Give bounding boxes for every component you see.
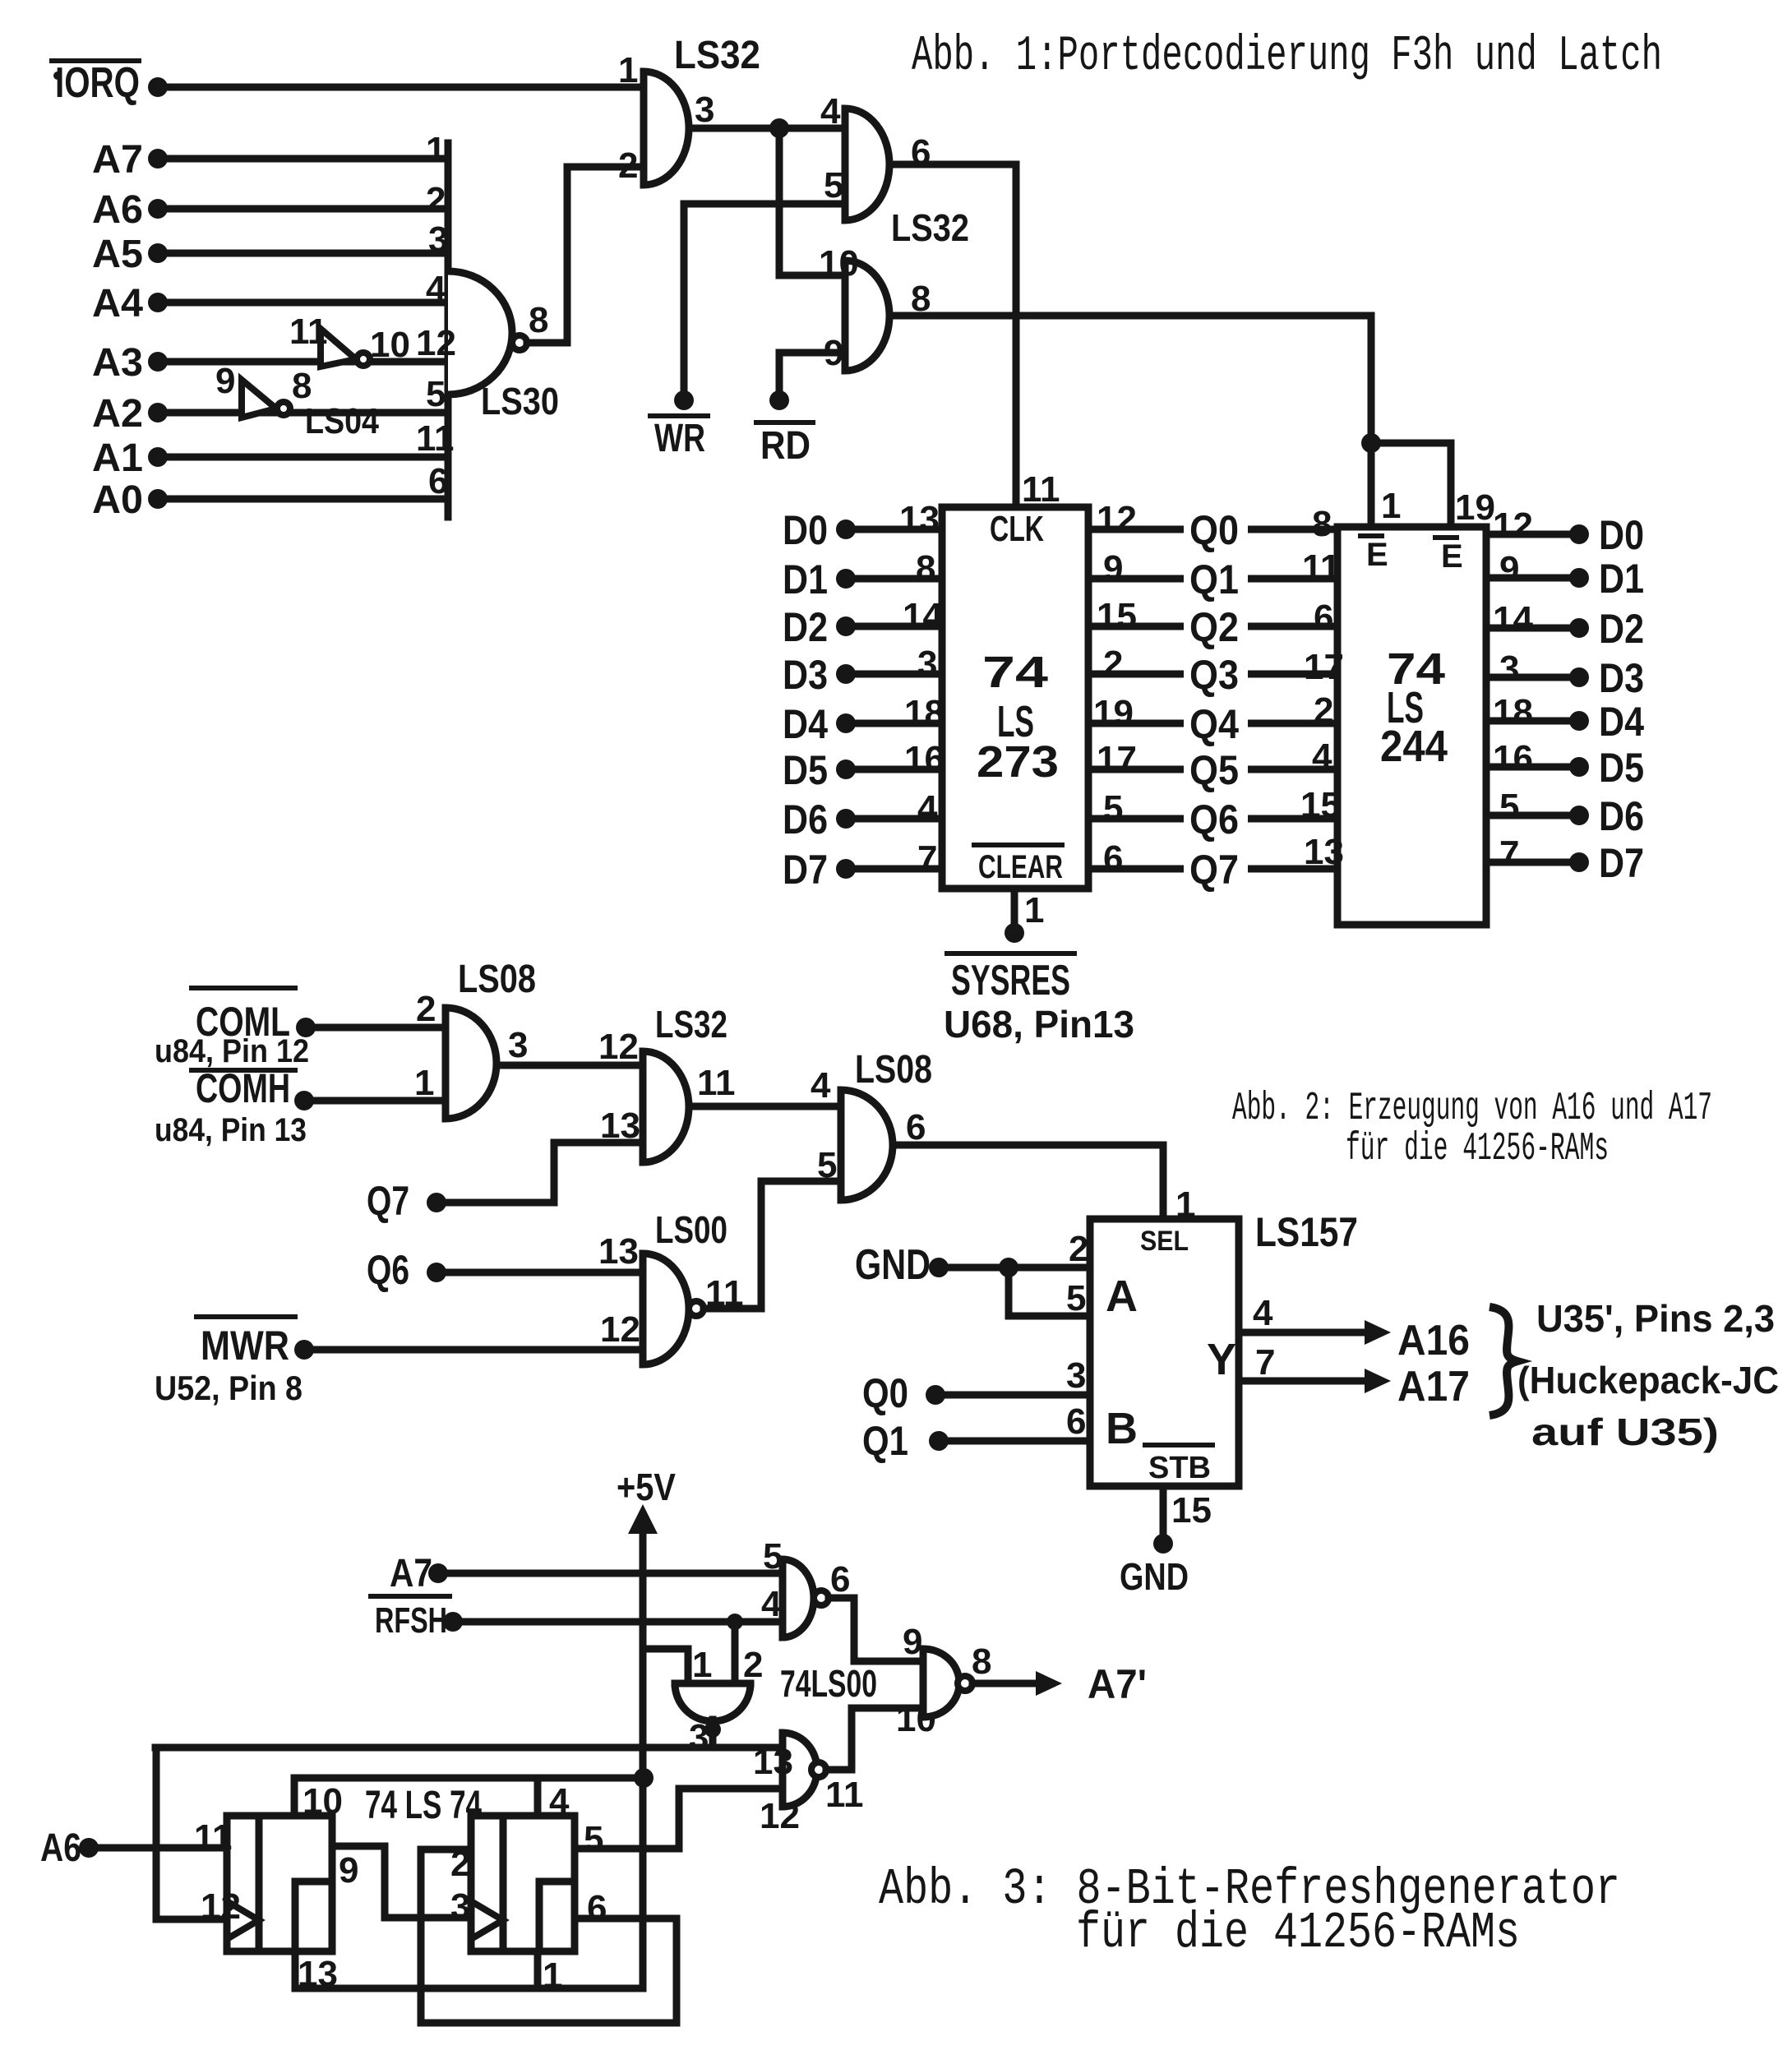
svg-text:CLEAR: CLEAR: [978, 849, 1063, 885]
svg-text:19: 19: [1093, 693, 1134, 733]
svg-text:273: 273: [977, 737, 1059, 787]
svg-text:15: 15: [1097, 596, 1137, 636]
svg-text:D0: D0: [1599, 512, 1644, 558]
svg-text:4: 4: [917, 788, 938, 829]
svg-text:19: 19: [1455, 487, 1495, 528]
svg-text:12: 12: [1097, 499, 1137, 539]
svg-text:Q0: Q0: [862, 1370, 908, 1416]
svg-text:11: 11: [416, 418, 455, 459]
svg-text:A6: A6: [92, 188, 143, 232]
svg-text:LS00: LS00: [655, 1208, 727, 1251]
svg-text:7: 7: [1255, 1342, 1275, 1383]
svg-text:B: B: [1106, 1404, 1138, 1453]
svg-text:MWR: MWR: [201, 1323, 289, 1369]
svg-text:LS08: LS08: [458, 958, 536, 1001]
svg-text:u84, Pin 12: u84, Pin 12: [155, 1033, 309, 1069]
svg-text:3: 3: [695, 90, 714, 130]
svg-text:5: 5: [1066, 1278, 1086, 1318]
svg-text:Q0: Q0: [1189, 507, 1239, 553]
svg-text:Q6: Q6: [367, 1247, 409, 1293]
svg-text:LS08: LS08: [855, 1048, 932, 1092]
svg-text:244: 244: [1380, 722, 1448, 771]
svg-text:5: 5: [1499, 787, 1519, 827]
svg-text:A7': A7': [1088, 1661, 1147, 1707]
svg-text:D1: D1: [1599, 556, 1644, 602]
svg-text:1: 1: [1381, 486, 1401, 526]
svg-text:4: 4: [426, 269, 446, 309]
svg-text:11: 11: [825, 1775, 864, 1815]
svg-text:RFSH: RFSH: [375, 1600, 447, 1641]
svg-text:für die 41256-RAMs: für die 41256-RAMs: [1076, 1904, 1520, 1962]
svg-text:18: 18: [1493, 692, 1533, 732]
svg-text:6: 6: [1314, 598, 1333, 638]
svg-text:D7: D7: [783, 847, 828, 893]
svg-text:2: 2: [1103, 644, 1123, 684]
svg-text:3: 3: [917, 644, 937, 684]
svg-text:Q2: Q2: [1189, 604, 1239, 650]
svg-text:GND: GND: [1120, 1555, 1189, 1598]
svg-text:14: 14: [1493, 599, 1533, 639]
svg-text:A2: A2: [92, 392, 143, 436]
svg-text:6: 6: [830, 1559, 850, 1600]
svg-text:74 LS 74: 74 LS 74: [365, 1784, 482, 1827]
svg-text:E: E: [1441, 538, 1463, 575]
svg-text:WR: WR: [654, 417, 705, 460]
svg-text:12: 12: [760, 1796, 800, 1836]
svg-text:GND: GND: [855, 1241, 931, 1289]
svg-text:SEL: SEL: [1140, 1226, 1189, 1257]
svg-text:LS30: LS30: [481, 380, 559, 422]
svg-text:RD: RD: [760, 424, 811, 468]
svg-text:6: 6: [1103, 838, 1123, 879]
svg-text:D4: D4: [783, 701, 828, 747]
svg-text:2: 2: [743, 1645, 763, 1685]
svg-text:5: 5: [584, 1819, 603, 1859]
svg-text:LS32: LS32: [655, 1003, 727, 1046]
svg-text:11: 11: [289, 312, 328, 352]
svg-text:A1: A1: [92, 436, 143, 480]
svg-text:5: 5: [426, 374, 446, 414]
svg-text:11: 11: [194, 1817, 233, 1858]
svg-text:15: 15: [1171, 1490, 1212, 1531]
svg-text:2: 2: [1314, 690, 1333, 731]
svg-text:6: 6: [1066, 1401, 1086, 1442]
svg-text:16: 16: [904, 739, 944, 779]
svg-text:D6: D6: [1599, 793, 1644, 839]
svg-text:1: 1: [414, 1063, 434, 1103]
svg-text:CLK: CLK: [990, 509, 1044, 549]
svg-text:LS32: LS32: [674, 34, 760, 77]
svg-text:3: 3: [450, 1886, 470, 1927]
svg-text:A0: A0: [92, 478, 143, 522]
svg-text:3: 3: [1499, 649, 1519, 689]
svg-text:D7: D7: [1599, 840, 1644, 886]
svg-text:A6: A6: [40, 1826, 81, 1870]
svg-text:U35', Pins 2,3: U35', Pins 2,3: [1536, 1297, 1775, 1340]
svg-text:74: 74: [982, 648, 1048, 697]
svg-text:11: 11: [697, 1063, 736, 1103]
svg-text:A7: A7: [92, 138, 143, 182]
svg-text:STB: STB: [1148, 1451, 1211, 1485]
svg-text:1: 1: [1024, 890, 1044, 930]
svg-text:E: E: [1366, 537, 1388, 573]
svg-text:9: 9: [1499, 549, 1519, 589]
svg-text:4: 4: [761, 1584, 782, 1624]
svg-text:4: 4: [1312, 736, 1332, 777]
svg-text:D6: D6: [783, 796, 828, 843]
svg-text:8: 8: [1312, 504, 1332, 544]
svg-text:A5: A5: [92, 233, 143, 276]
svg-text:2: 2: [618, 145, 638, 186]
svg-text:18: 18: [904, 693, 944, 733]
svg-text:Q1: Q1: [1189, 556, 1239, 603]
svg-text:LS32: LS32: [891, 206, 969, 249]
svg-text:3: 3: [428, 219, 448, 260]
svg-text:A7: A7: [390, 1552, 432, 1595]
svg-text:D2: D2: [1599, 606, 1644, 652]
svg-text:D1: D1: [783, 556, 828, 603]
svg-text:3: 3: [1066, 1355, 1086, 1396]
svg-text:A4: A4: [92, 282, 143, 326]
svg-text:13: 13: [1304, 832, 1344, 872]
svg-text:D2: D2: [783, 604, 828, 650]
svg-text:SYSRES: SYSRES: [951, 957, 1070, 1004]
svg-text:4: 4: [1253, 1293, 1273, 1333]
svg-text:A17: A17: [1397, 1363, 1470, 1411]
svg-text:13: 13: [899, 499, 940, 539]
svg-text:17: 17: [1304, 647, 1344, 687]
svg-text:Q7: Q7: [367, 1178, 409, 1224]
svg-text:Abb. 2: Erzeugung von A16 und: Abb. 2: Erzeugung von A16 und A17: [1232, 1087, 1712, 1131]
svg-text:12: 12: [600, 1309, 640, 1350]
svg-text:+5V: +5V: [617, 1466, 676, 1508]
svg-text:Q5: Q5: [1189, 747, 1239, 793]
svg-text:17: 17: [1097, 739, 1137, 779]
svg-text:Q1: Q1: [862, 1418, 908, 1464]
svg-text:1: 1: [426, 130, 446, 170]
svg-text:U68, Pin13: U68, Pin13: [944, 1003, 1134, 1046]
svg-text:13: 13: [753, 1742, 793, 1782]
svg-text:u84, Pin 13: u84, Pin 13: [155, 1112, 307, 1148]
svg-text:5: 5: [1103, 788, 1123, 829]
svg-text:D4: D4: [1599, 699, 1644, 745]
svg-text:1: 1: [618, 50, 638, 90]
svg-text:12: 12: [416, 323, 456, 363]
svg-text:2: 2: [426, 180, 446, 220]
svg-text:9: 9: [215, 361, 235, 401]
svg-text:8: 8: [972, 1641, 991, 1682]
svg-text:Q3: Q3: [1189, 652, 1239, 698]
svg-text:4: 4: [820, 91, 841, 132]
svg-text:Q7: Q7: [1189, 847, 1239, 893]
svg-text:auf U35): auf U35): [1531, 1411, 1719, 1453]
svg-text:2: 2: [1069, 1229, 1088, 1269]
svg-text:D5: D5: [1599, 745, 1644, 791]
svg-text:(Huckepack-JC: (Huckepack-JC: [1517, 1359, 1779, 1401]
svg-text:74LS00: 74LS00: [780, 1662, 877, 1705]
svg-text:LS04: LS04: [305, 401, 379, 441]
svg-text:8: 8: [292, 366, 312, 406]
svg-text:Y: Y: [1207, 1335, 1236, 1384]
svg-text:D3: D3: [1599, 655, 1644, 701]
svg-text:D5: D5: [783, 747, 828, 793]
svg-text:9: 9: [339, 1850, 358, 1891]
svg-text:7: 7: [917, 838, 937, 879]
svg-text:10: 10: [370, 325, 410, 365]
svg-text:8: 8: [916, 548, 935, 589]
svg-text:D3: D3: [783, 652, 828, 698]
svg-text:IORQ: IORQ: [55, 59, 140, 107]
svg-text:D0: D0: [783, 507, 828, 553]
svg-text:Abb. 1:Portdecodierung F3h und: Abb. 1:Portdecodierung F3h und Latch: [912, 29, 1662, 85]
svg-text:5: 5: [824, 165, 843, 205]
svg-text:Q6: Q6: [1189, 796, 1239, 843]
svg-text:11: 11: [1302, 547, 1341, 588]
svg-text:7: 7: [1499, 833, 1519, 874]
svg-text:9: 9: [824, 333, 843, 373]
svg-text:1: 1: [543, 1955, 562, 1996]
svg-text:12: 12: [1493, 506, 1533, 546]
svg-text:13: 13: [298, 1954, 338, 1994]
svg-text:A: A: [1106, 1272, 1138, 1321]
svg-text:Q4: Q4: [1189, 701, 1239, 747]
svg-text:12: 12: [598, 1027, 639, 1067]
svg-text:2: 2: [416, 989, 436, 1029]
svg-text:U52, Pin 8: U52, Pin 8: [155, 1369, 303, 1407]
svg-text:16: 16: [1493, 738, 1533, 778]
svg-text:15: 15: [1300, 785, 1341, 825]
svg-text:8: 8: [529, 300, 548, 340]
svg-text:4: 4: [811, 1065, 831, 1106]
svg-text:13: 13: [598, 1231, 639, 1272]
svg-text:A3: A3: [92, 341, 143, 385]
svg-text:A16: A16: [1397, 1317, 1470, 1364]
svg-text:3: 3: [689, 1717, 709, 1757]
svg-text:10: 10: [819, 243, 859, 284]
svg-text:6: 6: [587, 1888, 607, 1928]
svg-text:14: 14: [903, 596, 943, 636]
svg-text:6: 6: [428, 461, 448, 501]
svg-text:für die 41256-RAMs: für die 41256-RAMs: [1346, 1127, 1609, 1171]
svg-text:9: 9: [1103, 548, 1123, 589]
svg-text:1: 1: [692, 1645, 712, 1685]
svg-text:LS157: LS157: [1255, 1209, 1358, 1255]
svg-text:3: 3: [508, 1025, 528, 1065]
